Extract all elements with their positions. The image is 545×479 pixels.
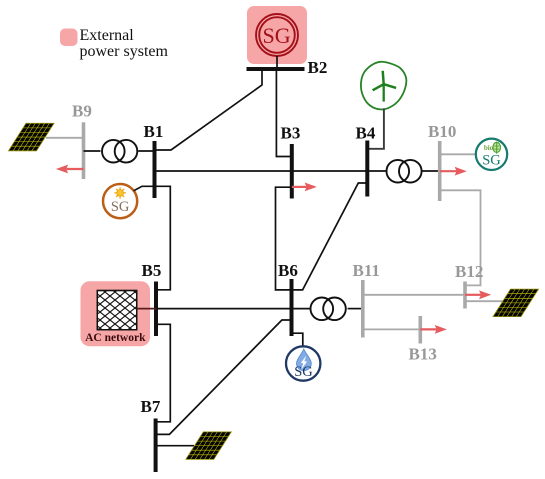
svg-text:B4: B4: [356, 124, 376, 143]
bus B7: [154, 419, 158, 473]
wire B9-T1: [84, 150, 101, 152]
svg-text:External: External: [80, 27, 135, 44]
legend swatch (external power system): [60, 29, 78, 47]
svg-text:B1: B1: [144, 122, 164, 141]
PV panel at B12: [493, 289, 539, 317]
PV panel at B9: [9, 123, 55, 151]
label B3: [281, 123, 301, 142]
label B10: [428, 122, 456, 141]
label B4: [356, 124, 376, 143]
svg-text:power system: power system: [80, 43, 169, 60]
wire B10-bioSG: [440, 153, 476, 155]
wire B7-PV: [156, 445, 194, 447]
label B6: [278, 261, 298, 280]
bus B11: [361, 280, 365, 338]
wire B12-PV: [465, 300, 504, 302]
load arrow at B13: [420, 325, 447, 334]
wire B10-B12: [440, 190, 481, 285]
svg-text:B3: B3: [281, 123, 301, 142]
wire B6-B7: [156, 320, 292, 434]
label B7: [141, 397, 161, 416]
bus B5: [154, 282, 158, 337]
wire B4-B6: [292, 183, 368, 290]
transformer T3 (B6-B11): [311, 298, 346, 321]
wire B11-B13: [363, 328, 421, 330]
load arrow at B3: [292, 183, 317, 192]
bus B1: [153, 141, 157, 198]
wire B2-B1: [155, 69, 263, 150]
label B9: [72, 101, 92, 120]
svg-text:B6: B6: [278, 261, 298, 280]
bus B12: [463, 282, 467, 309]
wire B1-B5: [155, 186, 171, 289]
wire SGsolar-B1: [134, 186, 155, 190]
wire wind-B4: [367, 108, 384, 148]
wire ACnet-B5: [137, 308, 156, 310]
svg-text:B11: B11: [353, 261, 380, 280]
wire B5-B6: [156, 308, 292, 310]
svg-text:AC network: AC network: [85, 332, 146, 344]
wire B2-B3: [276, 69, 291, 157]
svg-text:bio: bio: [484, 144, 494, 152]
AC network box: [81, 281, 151, 346]
wire T3-B11: [348, 308, 363, 310]
svg-text:B9: B9: [72, 101, 92, 120]
bus B10: [438, 141, 442, 201]
bus B4: [365, 141, 369, 197]
load arrow at B9: [56, 165, 84, 174]
svg-text:B7: B7: [141, 397, 161, 416]
wire SG to B2: [276, 56, 278, 69]
PV panel at B7: [186, 432, 232, 460]
svg-text:SG: SG: [263, 23, 291, 48]
label B12: [455, 262, 483, 281]
generator SG biomass: [476, 139, 507, 170]
svg-text:B5: B5: [142, 261, 162, 280]
external power system box at B2: [247, 6, 307, 64]
svg-text:B10: B10: [428, 122, 456, 141]
wind turbine generator (at B4): [361, 62, 406, 110]
label B11: [353, 261, 380, 280]
bus B3: [290, 144, 294, 199]
svg-text:B12: B12: [455, 262, 483, 281]
label B5: [142, 261, 162, 280]
wire T1-B1: [138, 150, 154, 152]
svg-text:SG: SG: [294, 364, 313, 380]
svg-text:B13: B13: [409, 344, 437, 363]
wire B3-B6: [276, 187, 292, 290]
label B2: [308, 58, 328, 77]
generator SG hydro: [286, 346, 320, 380]
load arrow at B10: [440, 167, 467, 176]
wire B11-B12: [363, 294, 465, 296]
wire B1-B4 (through B3): [155, 170, 368, 172]
generator SG (external grid): [256, 14, 298, 56]
bus B13: [418, 316, 422, 344]
wire B6-T3: [292, 308, 311, 310]
load arrow at B12: [465, 290, 491, 299]
svg-text:B2: B2: [308, 58, 328, 77]
wire B5-B7: [156, 324, 171, 422]
generator SG solar (at B1): [103, 184, 137, 218]
bus B6: [290, 279, 294, 336]
label B1: [144, 122, 164, 141]
label B13: [409, 344, 437, 363]
transformer T2 (B4-B10): [387, 160, 422, 183]
svg-text:SG: SG: [482, 153, 501, 169]
transformer T1 (B9-B1): [102, 140, 137, 163]
legend text: [80, 27, 169, 60]
svg-text:SG: SG: [111, 199, 130, 215]
bus B9: [82, 122, 86, 179]
bus B2: [247, 67, 305, 71]
wire T2-B10: [421, 170, 440, 172]
wire B6-waterSG: [292, 333, 303, 346]
wire B4-T2: [367, 170, 386, 172]
wire PV-B9: [46, 137, 84, 139]
